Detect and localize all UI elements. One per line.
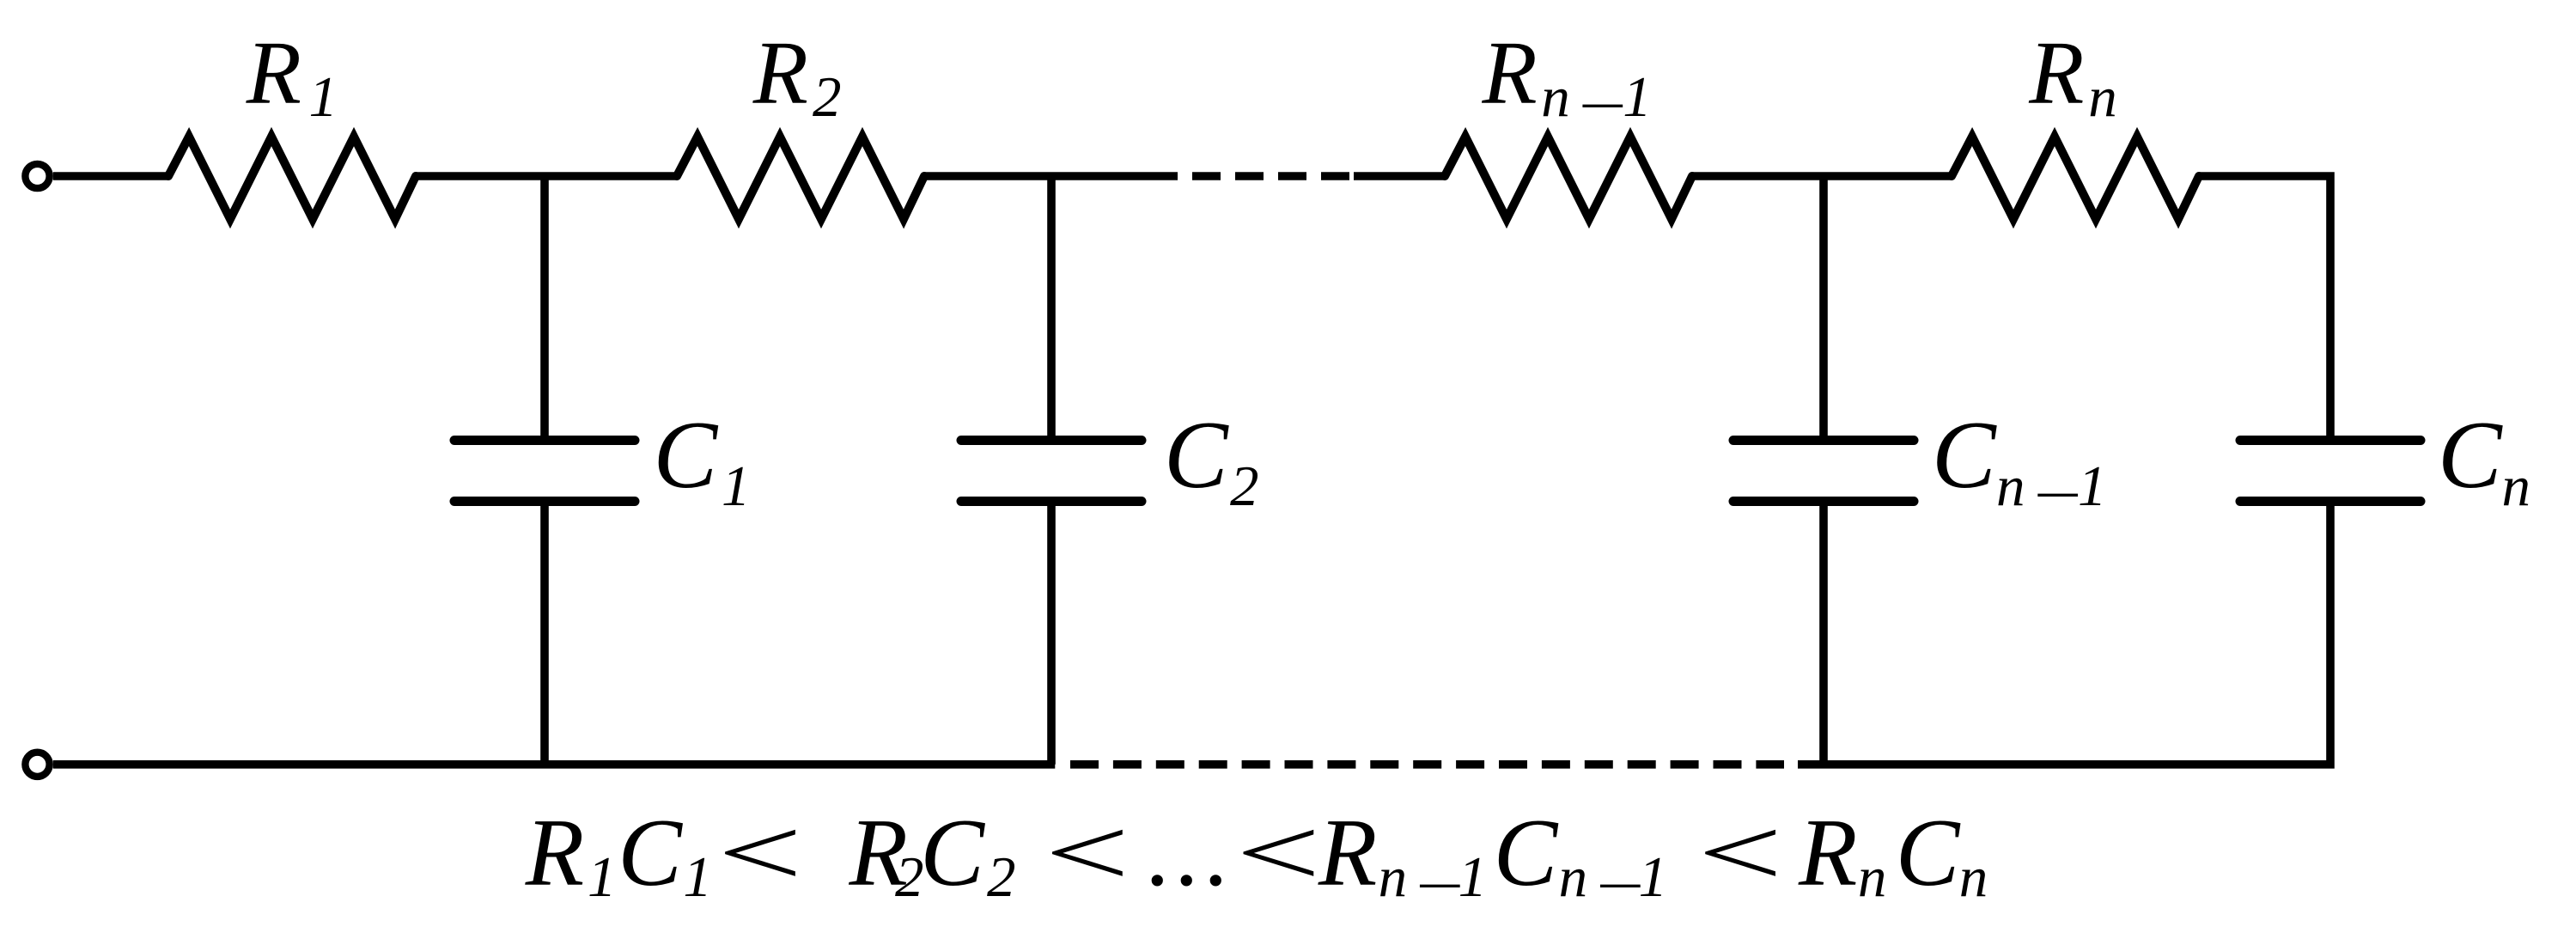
svg-text:.: . [1177,800,1201,906]
svg-text:2: 2 [813,65,842,129]
svg-text:2: 2 [987,845,1016,909]
svg-text:<: < [1227,799,1329,905]
svg-text:R: R [246,22,301,123]
svg-text:n: n [1559,845,1588,909]
svg-text:n: n [1858,845,1887,909]
svg-text:1: 1 [588,845,617,909]
svg-text:n: n [2502,454,2531,518]
svg-text:C: C [1932,402,1997,509]
svg-text:<: < [1688,799,1790,905]
svg-text:.: . [1148,800,1172,906]
svg-text:C: C [1896,800,1961,906]
svg-text:R: R [1482,22,1538,123]
svg-text:n: n [1541,65,1570,129]
svg-text:1: 1 [2078,454,2107,518]
svg-text:1: 1 [1459,845,1488,909]
svg-text:R: R [752,22,808,123]
svg-text:C: C [920,800,985,906]
svg-text:<: < [1035,799,1137,905]
svg-text:n: n [1959,845,1988,909]
svg-text:n: n [1996,454,2025,518]
svg-text:R: R [1318,800,1377,906]
svg-text:C: C [1164,402,1229,509]
svg-text:1: 1 [1623,65,1652,129]
svg-text:C: C [654,402,719,509]
svg-text:1: 1 [1639,845,1668,909]
svg-text:1: 1 [309,65,338,129]
svg-text:R: R [525,800,584,906]
svg-text:2: 2 [1230,454,1259,518]
svg-text:n: n [1379,845,1408,909]
svg-text:1: 1 [722,454,751,518]
svg-text:C: C [1494,800,1559,906]
svg-text:<: < [708,799,810,905]
svg-text:n: n [2088,65,2117,129]
svg-text:R: R [2028,22,2084,123]
svg-text:R: R [1798,800,1857,906]
svg-text:C: C [618,800,683,906]
svg-text:C: C [2438,402,2503,509]
